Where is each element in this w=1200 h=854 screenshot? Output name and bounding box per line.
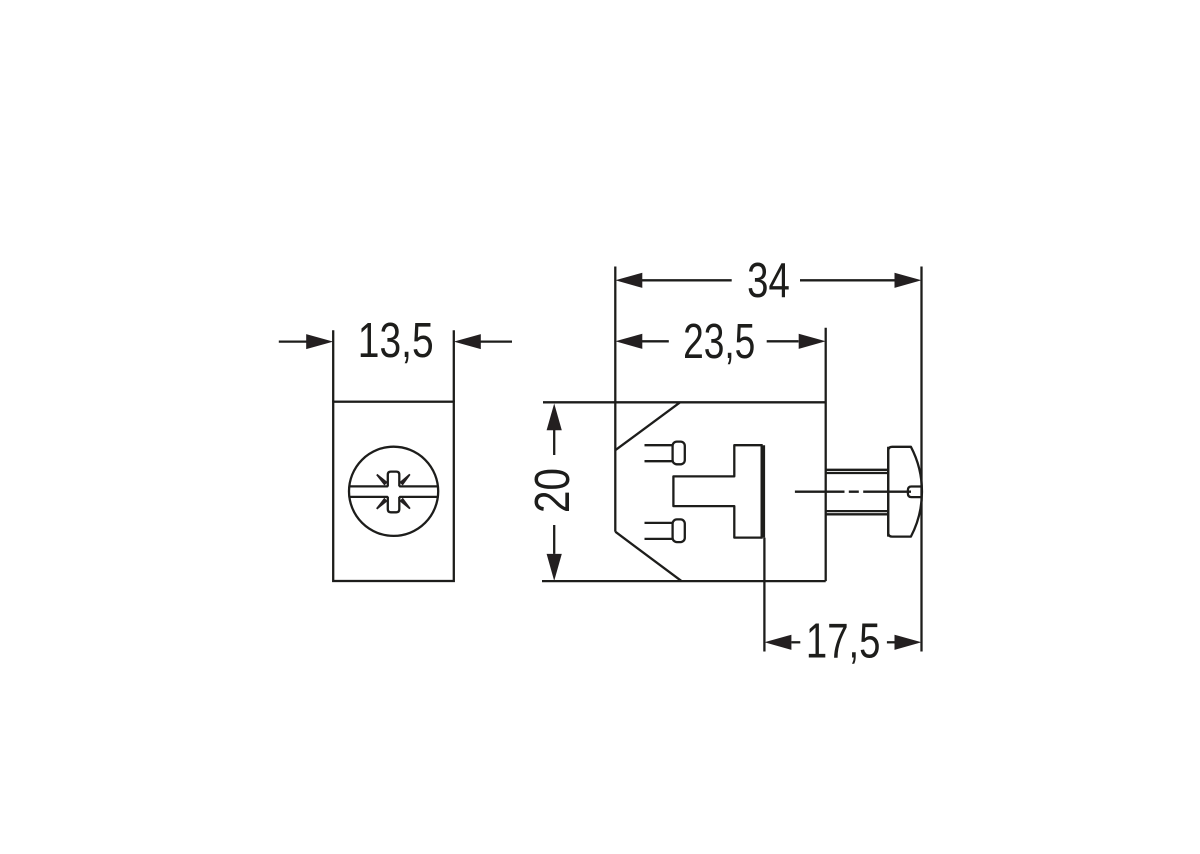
svg-text:34: 34 bbox=[747, 253, 790, 308]
screw thread lines bbox=[826, 470, 888, 515]
lower contact pin cap bbox=[673, 519, 685, 542]
upper contact pin lines bbox=[645, 445, 673, 461]
side view body left edge and 34/23,5 extension line bbox=[614, 267, 616, 532]
pozidriv vertical slot bbox=[388, 472, 400, 513]
dimension 34 / 17,5 right extension line bbox=[920, 267, 922, 652]
dimension 34 line right segment bbox=[800, 279, 895, 281]
side view body bottom line with 20-dim extension bbox=[542, 580, 826, 582]
dimension 23,5 line left segment bbox=[642, 340, 669, 342]
dimension 17,5 line left segment bbox=[791, 641, 800, 643]
side view body right edge and 23,5 extension line bbox=[825, 328, 827, 581]
dimension 34 left arrow bbox=[615, 273, 642, 288]
dimension 20 upper arrow bbox=[547, 404, 562, 431]
dimension 17,5 right arrow bbox=[895, 635, 922, 650]
side view body lower chamfer bbox=[615, 532, 681, 581]
pozidriv wedge upper-left bbox=[376, 474, 388, 486]
screw head slot bbox=[908, 487, 922, 498]
clamping T-piece outline bbox=[673, 445, 762, 537]
pozidriv horizontal slot lines bbox=[349, 486, 437, 497]
dimension 23,5 line right segment bbox=[767, 340, 799, 342]
pozidriv wedge upper-right bbox=[399, 474, 410, 486]
dimension 20 line lower segment bbox=[553, 525, 555, 554]
pozidriv wedge lower-left bbox=[376, 498, 388, 510]
dimension 20 lower arrow bbox=[547, 554, 562, 581]
dimension 13,5 right arrow bbox=[480, 340, 512, 342]
screw head left face bbox=[887, 447, 889, 537]
clamping T-piece thick right face bbox=[760, 445, 765, 537]
dimension 34 line left segment bbox=[642, 279, 732, 281]
dimension 34 right arrow bbox=[895, 273, 922, 288]
dimension 17,5 left arrow bbox=[764, 635, 791, 650]
svg-text:13,5: 13,5 bbox=[358, 313, 434, 367]
dimension 20 line upper segment bbox=[553, 429, 555, 455]
screw head circle bbox=[349, 447, 438, 536]
dimension 13,5 extension lines bbox=[333, 330, 454, 401]
svg-text:23,5: 23,5 bbox=[683, 314, 755, 369]
pozidriv wedge lower-right bbox=[400, 498, 411, 510]
screw head outline bbox=[888, 447, 922, 537]
dimension 17,5 left extension line bbox=[763, 538, 765, 652]
dimension 17,5 line right segment bbox=[887, 641, 895, 643]
front view rectangle bbox=[333, 402, 454, 581]
svg-text:17,5: 17,5 bbox=[806, 614, 881, 669]
lower contact pin lines bbox=[645, 523, 673, 539]
upper contact pin cap bbox=[673, 442, 685, 465]
svg-text:20: 20 bbox=[524, 468, 580, 513]
dimension 23,5 right arrow bbox=[799, 334, 826, 349]
side view body upper chamfer bbox=[615, 402, 680, 450]
side view body top line with 20-dim extension bbox=[543, 401, 826, 403]
screw centerline bbox=[795, 491, 911, 493]
dimension 23,5 left arrow bbox=[615, 334, 642, 349]
dimension 13,5 left arrow bbox=[279, 340, 307, 342]
